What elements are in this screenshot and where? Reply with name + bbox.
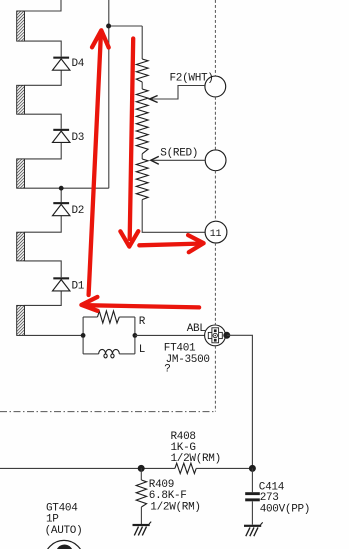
svg-text:D4: D4 [72,58,85,70]
node pin 11 [205,221,227,243]
resistor bleeder section 3 (screen divider bottom) [136,159,148,200]
wire D3 anode to W3 top edge [25,142,62,159]
annotation red arrow up (current path into HV rail) [89,30,109,295]
ground R409 [133,522,152,536]
T1 winding W2 (flyback secondary, hatched core bar) [17,85,25,114]
svg-text:D1: D1 [72,281,85,293]
ground C414 [244,522,263,536]
wire D4 anode to W2 top edge [25,70,62,85]
junction dot C414 node [249,465,256,472]
svg-text:JM-3500: JM-3500 [166,354,210,366]
wire W5 bottom edge to R-L damper node [25,334,84,336]
wire HV rail stub (top) [108,0,110,26]
wire damper right leg [134,317,136,354]
block boundary dash-dot horizontal [0,411,215,413]
svg-text:1P: 1P [46,513,59,525]
junction dot HV rail top node [106,24,111,29]
svg-text:273: 273 [260,492,279,504]
wire chain tap 2 [141,154,143,159]
diode D4 [53,57,85,71]
wiper arrowhead F2 [150,96,158,103]
wire W1 top edge to top stub [25,0,62,11]
svg-text:1/2W(RM): 1/2W(RM) [171,453,221,465]
wire D2 node horizontal [61,187,109,189]
wire chain bottom to pin 11 [142,200,205,233]
wire ABL to R408/C414 node [227,335,253,468]
svg-text:1/2W(RM): 1/2W(RM) [150,502,200,514]
svg-text:400V(PP): 400V(PP) [260,503,310,515]
svg-text:D2: D2 [72,205,85,217]
svg-text:R409: R409 [149,479,174,491]
T1 winding W5 (flyback secondary, hatched core bar) [17,305,25,335]
diode D2 [53,202,85,217]
junction dot R409 node [138,465,145,472]
T1 winding W1 (flyback secondary, hatched core bar) [17,11,25,41]
svg-text:11: 11 [210,229,222,240]
svg-text:ABL: ABL [187,323,206,335]
wire W3 bottom edge / node to D2 cathode [25,188,62,202]
svg-text:R: R [139,316,146,328]
wiper arrowhead S [151,156,159,164]
wire chain tap 1 [141,82,143,89]
junction dot damper left [81,333,86,338]
T1 winding W3 (flyback secondary, hatched core bar) [17,159,25,188]
connector GT404 1P (AUTO) [44,503,83,549]
label FT401 designator block [164,343,210,376]
resistor bleeder section 1 (focus divider top) [136,59,148,82]
junction dot damper right [133,333,138,338]
diode D1 [53,277,85,292]
svg-text:FT401: FT401 [164,343,196,355]
svg-text:D3: D3 [72,132,85,144]
junction dot ABL output [223,332,230,339]
wire F2 wiper [152,86,205,100]
resistor R (damper, top of parallel pair) [83,311,146,328]
capacitor C414 273 400V(PP) [245,468,310,524]
wire ABL bus (bottom horizontal) [0,467,175,469]
wire D2 anode to W4 top edge [25,216,62,233]
wire HV rail down to D2 node [108,26,110,188]
annotation red arrow down (through bleeder) [120,39,138,247]
wire chain top lead [141,26,143,59]
node F2 (focus lead, WHT) [170,73,226,97]
annotation red arrow left (to damper/D1) [81,297,199,311]
svg-text:6.8K-F: 6.8K-F [149,490,187,502]
svg-text:L: L [139,344,145,356]
inductor L (damper, bottom of parallel pair) [83,344,145,358]
node S (screen lead, RED) [160,147,226,170]
wire damper to ABL ferrite [135,334,205,336]
T1 winding W4 (flyback secondary, hatched core bar) [17,232,25,261]
wire damper left leg [82,317,84,354]
resistor R408 1K-G 1/2W(RM) [171,431,221,474]
wire node to bleeder chain top [109,25,142,27]
annotation red arrow right (to pin 11) [139,235,203,252]
resistor R409 6.8K-F 1/2W(RM) [136,468,201,524]
ferrite bead FT401 (ABL feed-through) [205,325,226,346]
svg-text:(AUTO): (AUTO) [45,525,83,537]
junction dot D2 cathode node [59,186,64,191]
wire W2 bottom edge to D3 cathode [25,114,62,129]
wire S wiper [153,159,206,161]
svg-text:?: ? [164,364,170,376]
wire W4 bottom edge to D1 cathode [25,261,62,277]
wire W1 bottom edge to D4 cathode [25,41,62,57]
svg-text:F2(WHT): F2(WHT) [170,73,214,85]
wire D1 anode to W5 top edge [25,291,62,306]
diode D3 [53,129,85,144]
resistor bleeder section 2 (focus divider middle) [136,89,148,154]
block boundary dashed vertical [214,0,216,76]
svg-text:S(RED): S(RED) [160,147,198,159]
